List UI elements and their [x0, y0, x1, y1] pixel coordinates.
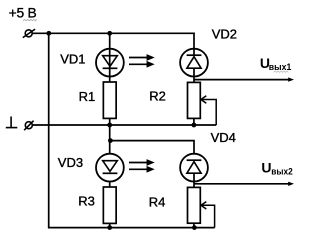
node top-left rail junction	[46, 31, 51, 36]
node VD1 top junction	[107, 31, 112, 36]
wiper arrow R2	[201, 96, 216, 125]
wire branch to VD4	[110, 141, 194, 154]
wire VD4 bottom	[193, 173, 195, 188]
svg-text:U: U	[261, 160, 271, 176]
wiper arrow R4	[201, 202, 215, 228]
wire bottom rail	[48, 227, 215, 229]
resistor R3	[103, 187, 116, 223]
wire R1 bottom	[109, 118, 111, 125]
wire output 2	[194, 183, 289, 185]
LED VD1	[96, 49, 124, 77]
svg-text:R4: R4	[149, 195, 166, 210]
node R3 bottom junction	[107, 225, 112, 230]
svg-text:R1: R1	[79, 89, 96, 104]
svg-text:VD2: VD2	[212, 26, 237, 41]
wire VD2 bottom	[193, 68, 195, 83]
svg-text:VD3: VD3	[58, 155, 83, 170]
svg-text:VD4: VD4	[211, 130, 236, 145]
resistor R1	[103, 82, 116, 118]
wire VD3 bottom	[109, 181, 111, 188]
wire R2 bottom	[193, 118, 195, 125]
svg-text:VD1: VD1	[60, 52, 85, 67]
svg-text:+5 В: +5 В	[9, 5, 37, 20]
wire VD1 column upper	[109, 33, 111, 83]
squiggle under +5 V	[23, 19, 37, 20]
arrowhead output 1	[288, 77, 294, 81]
squiggle under out1 subscript	[274, 71, 289, 72]
wire left rail	[48, 33, 50, 227]
VD1 light arrows	[129, 55, 153, 66]
photodiode VD4	[180, 154, 208, 182]
node VD3/VD4 branch junction	[108, 138, 113, 143]
wire VD3 column from middle rail	[109, 125, 111, 154]
node R1 bottom junction	[107, 123, 112, 128]
svg-text:R2: R2	[149, 88, 166, 103]
LED VD3	[96, 154, 124, 182]
resistor R2 (adjustable)	[188, 82, 201, 118]
terminal common	[24, 121, 33, 131]
svg-text:R3: R3	[78, 194, 95, 209]
svg-text:вых2: вых2	[271, 165, 293, 176]
wire output 1	[194, 79, 289, 81]
arrowhead output 2	[288, 182, 294, 186]
wire R4 bottom	[193, 223, 195, 227]
ground symbol	[6, 117, 17, 128]
wire VD2 column upper	[193, 33, 195, 56]
wire R3 bottom	[109, 223, 111, 227]
wire middle rail	[32, 124, 216, 126]
node R2 bottom junction	[192, 123, 197, 128]
photodiode VD2	[180, 49, 208, 77]
VD3 light arrows	[129, 160, 153, 171]
svg-text:вых1: вых1	[269, 61, 292, 72]
terminal +5V	[23, 29, 35, 37]
resistor R4 (adjustable)	[188, 187, 201, 223]
wire top rail	[32, 32, 195, 34]
node R4 bottom junction	[192, 225, 197, 230]
